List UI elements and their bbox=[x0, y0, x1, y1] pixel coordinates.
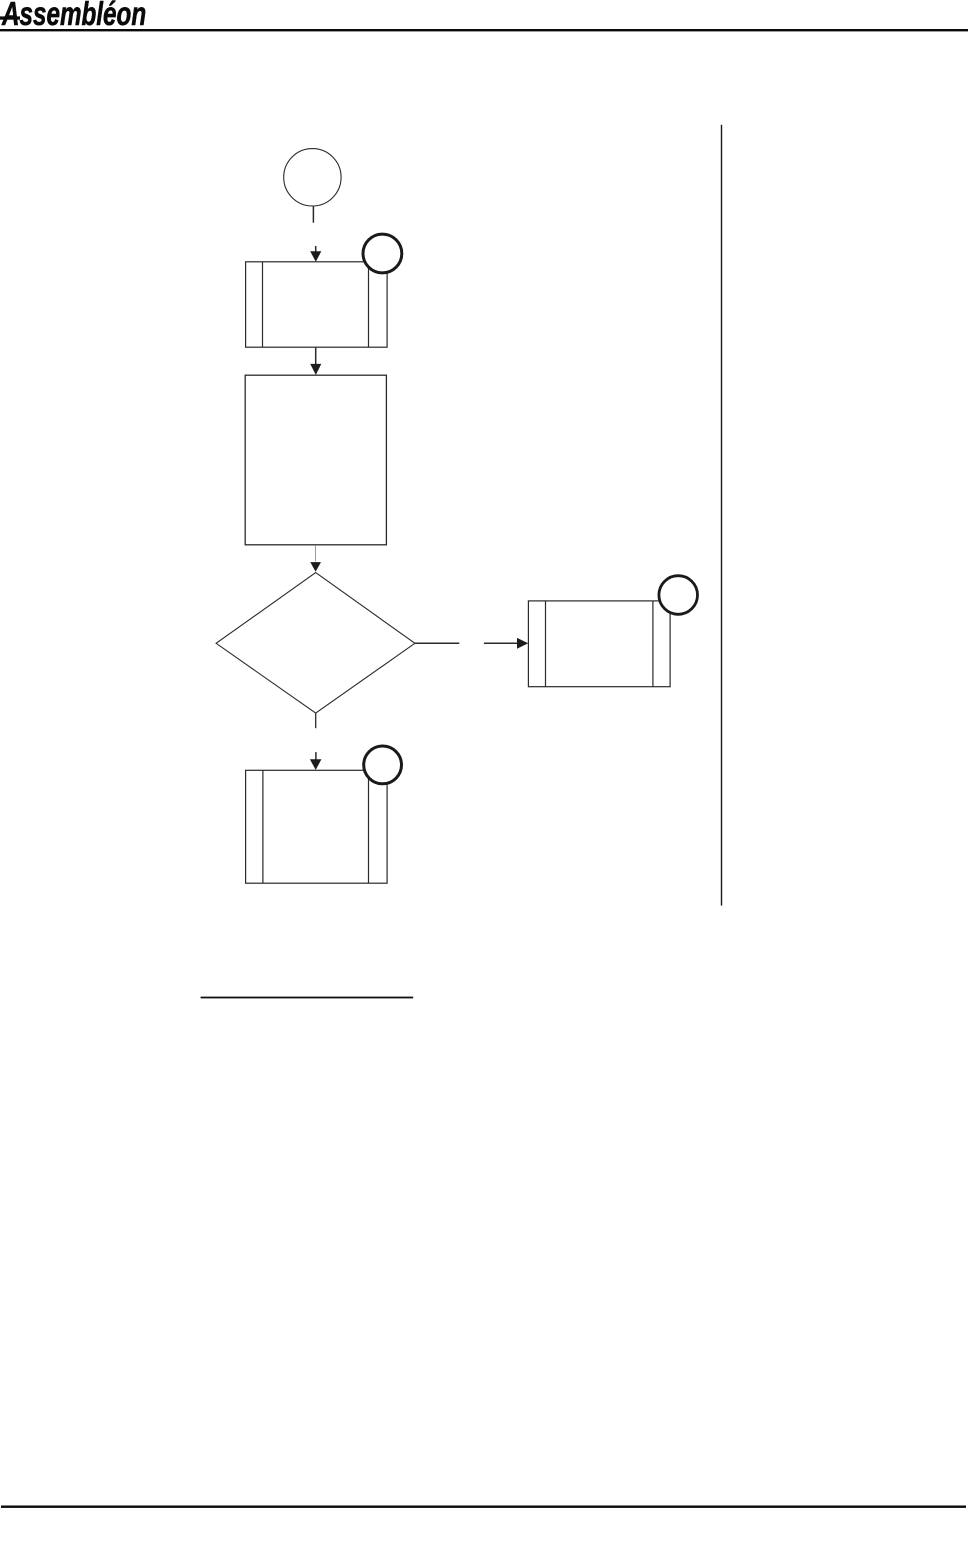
svg-text:Assembléon: Assembléon bbox=[1, 0, 146, 33]
